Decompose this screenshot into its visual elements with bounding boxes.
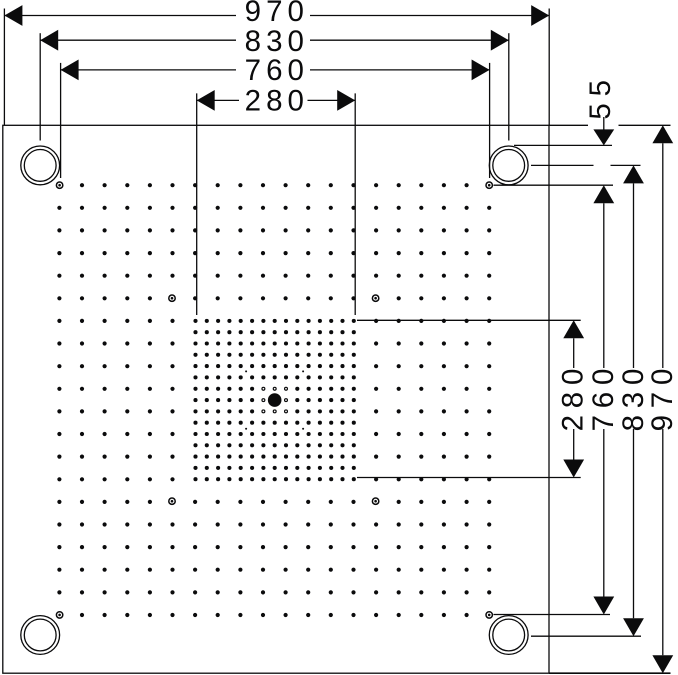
dimension 55 vertical [584,73,617,145]
screw mid bottom-right [372,498,378,504]
dimension 280 horizontal [197,85,356,118]
svg-text:760: 760 [245,54,309,87]
dimension 970 horizontal [4,0,549,28]
corner nozzle ring bottom-right [489,616,528,655]
extension line panel bottom right [549,672,671,674]
corner nozzle ring top-left [21,146,60,185]
sparse spray nozzle grid [57,183,491,617]
screw mid bottom-left [169,498,175,504]
dimension 830 vertical [617,165,650,636]
svg-text:280: 280 [245,85,309,118]
extension line screw row top [494,184,614,186]
ring of open nozzles around center [262,387,288,413]
extension line 970 left [3,9,5,126]
svg-text:830: 830 [245,25,309,58]
extension line 830 left [39,33,41,140]
shower panel outline [3,125,549,673]
extension line 760 left [60,63,62,178]
four tiny nozzles [245,370,304,429]
dimension 760 vertical [587,185,620,614]
extension line screw row bottom [494,614,611,616]
svg-text:280: 280 [557,362,590,432]
dimension 280 vertical [557,320,590,477]
svg-text:970: 970 [245,0,309,28]
screw bottom-left [56,612,62,618]
extension line circle center top a [531,164,594,166]
screw mid top-right [372,295,378,301]
svg-text:830: 830 [617,362,650,432]
extension line panel top right a [549,124,588,126]
extension line circle center top b [611,164,641,166]
corner nozzle ring bottom-left [21,616,60,655]
extension line circle center bottom [531,635,641,637]
extension line 830 right [508,33,510,140]
svg-text:55: 55 [584,73,617,119]
svg-text:970: 970 [646,362,678,432]
extension line dense zone bottom [357,477,581,479]
extension line circle top tangent [514,144,612,146]
extension line 760 right [489,63,491,178]
screw bottom-right [486,612,492,618]
screw mid top-left [169,295,175,301]
corner nozzle ring top-right [489,146,528,185]
dimension 760 horizontal [61,54,490,87]
extension line 280 left [196,93,198,315]
dimension 970 vertical [646,125,678,673]
extension line 280 right [354,93,356,315]
dense spray nozzle grid [193,319,355,481]
screw top-left [56,182,62,188]
extension line panel top right b [619,124,671,126]
screw top-right [486,182,492,188]
extension line 970 right [548,9,550,126]
dimension 830 horizontal [40,25,509,58]
extension line dense zone top [357,319,581,321]
center nozzle (large) [268,393,282,407]
svg-text:760: 760 [587,362,620,432]
